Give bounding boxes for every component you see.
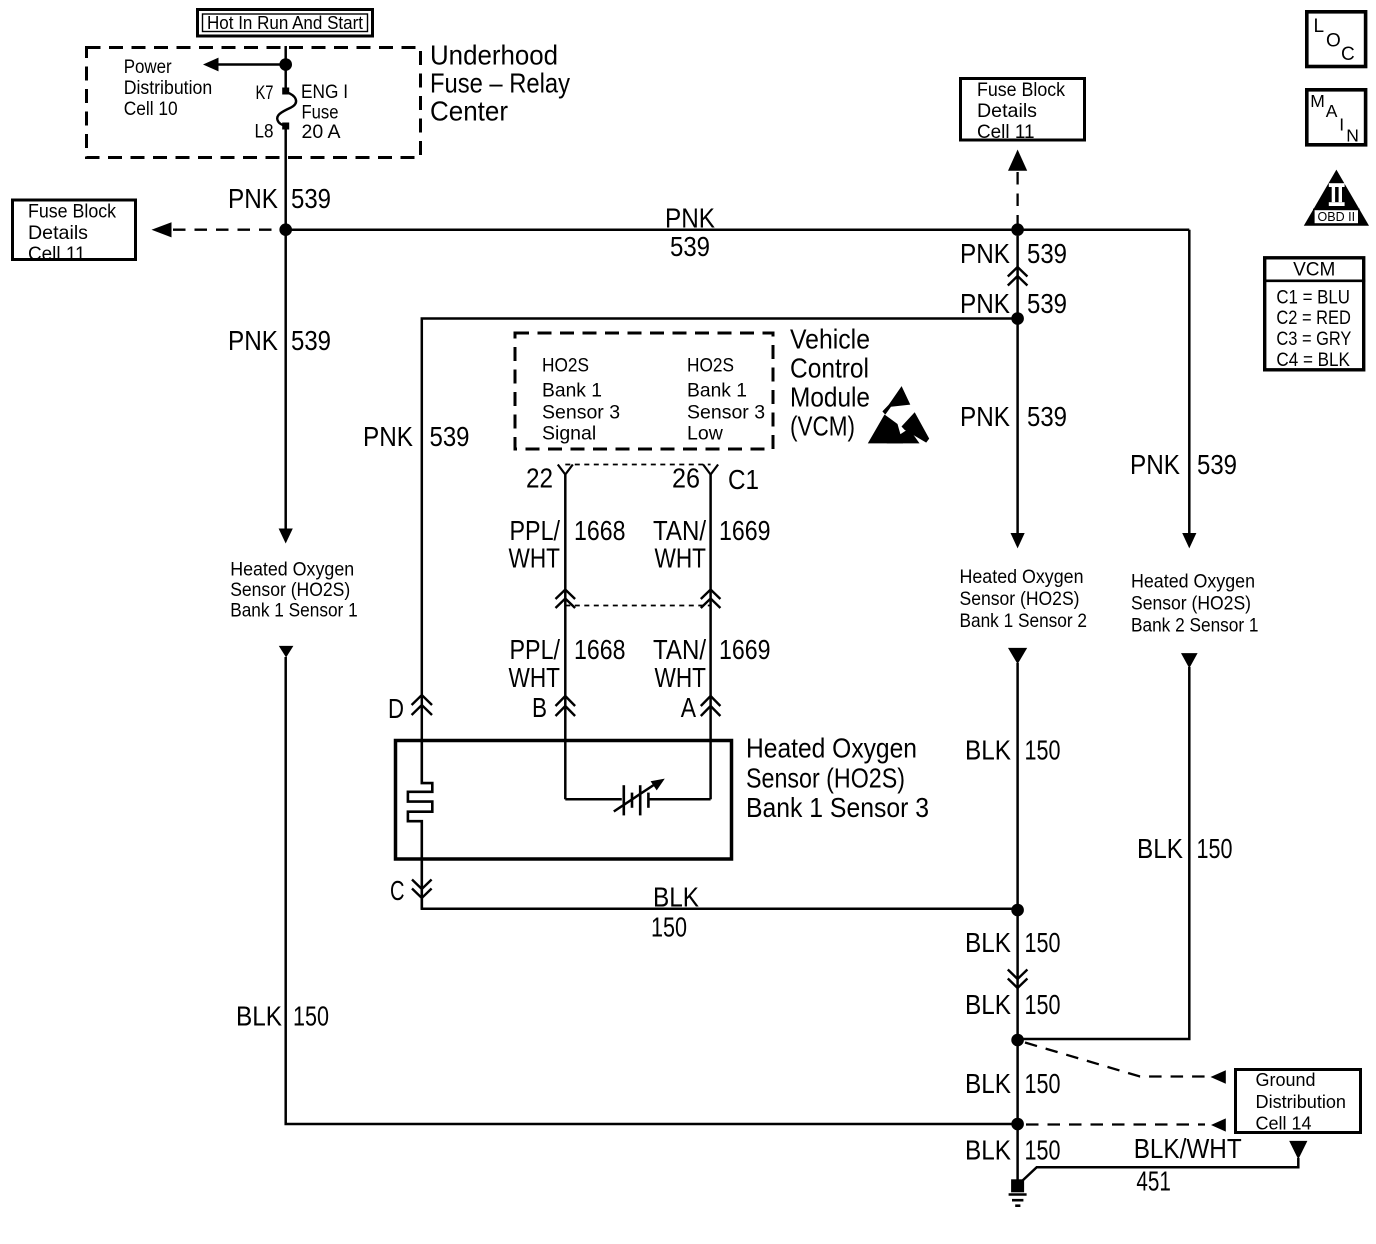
svg-text:A: A (681, 692, 697, 723)
svg-text:Sensor (HO2S): Sensor (HO2S) (230, 579, 350, 601)
svg-text:Control: Control (790, 353, 869, 384)
junction node: bus / middle branch (1011, 223, 1024, 236)
svg-text:Bank 1: Bank 1 (687, 379, 747, 401)
svg-text:Sensor 3: Sensor 3 (687, 402, 765, 424)
wire: PNK 539 middle vertical with down arrow (1011, 236, 1025, 548)
wire: hot feed from box into fuse center (284, 46, 287, 89)
svg-text:539: 539 (1197, 449, 1237, 480)
pin 22 fork (526, 463, 573, 494)
label box: Fuse Block Details Cell 11 (top) (961, 79, 1085, 144)
svg-text:Underhood: Underhood (430, 40, 558, 71)
svg-text:539: 539 (430, 421, 470, 452)
label box: Fuse Block Details Cell 11 (left) (13, 200, 136, 265)
label: PPL/WHT 1668 (upper) (509, 515, 626, 574)
svg-text:C1: C1 (728, 464, 759, 495)
svg-text:Details: Details (977, 100, 1037, 122)
svg-text:Module: Module (790, 382, 870, 413)
ground symbol G103 (1009, 1179, 1027, 1205)
svg-text:451: 451 (1136, 1165, 1171, 1196)
svg-text:Sensor (HO2S): Sensor (HO2S) (1131, 592, 1251, 614)
ESD sensitivity symbol (868, 386, 929, 443)
label: PPL/WHT 1668 (lower) (509, 634, 626, 693)
svg-text:ENG I: ENG I (301, 81, 348, 103)
label: BLK 150 (middle #3) (965, 989, 1061, 1020)
sensor cell element (inside HO2S box) (565, 740, 710, 816)
label: PNK 539 (middle #1) (960, 238, 1067, 269)
svg-text:BLK: BLK (965, 927, 1011, 958)
junction node: hot feed branch (279, 58, 292, 71)
svg-text:150: 150 (293, 1001, 329, 1032)
svg-text:OBD II: OBD II (1318, 210, 1356, 224)
svg-text:Heated Oxygen: Heated Oxygen (230, 559, 354, 581)
label box: Hot In Run And Start (198, 10, 373, 37)
text: HO2S Bank 1 Sensor 3 Signal (542, 354, 620, 444)
text: Power Distribution Cell 10 (124, 56, 213, 120)
LOC reference box (1307, 12, 1366, 67)
junction node: middle wire / inner bus (1011, 312, 1024, 325)
svg-text:BLK: BLK (653, 882, 699, 913)
svg-text:150: 150 (1025, 989, 1061, 1020)
svg-text:Distribution: Distribution (1256, 1092, 1347, 1112)
svg-text:L8: L8 (255, 121, 274, 143)
svg-text:26: 26 (672, 463, 700, 494)
svg-text:PNK: PNK (228, 325, 278, 356)
svg-text:Sensor (HO2S): Sensor (HO2S) (746, 763, 905, 794)
wire: BLK 150 right vertical joining middle (1018, 653, 1198, 1039)
svg-text:Sensor 3: Sensor 3 (542, 402, 620, 424)
label: BLK 150 (middle #5) (965, 1134, 1061, 1165)
svg-text:M: M (1310, 91, 1325, 111)
text: HO2S Bank 1 Sensor 3 Low (687, 354, 765, 444)
svg-text:Heated Oxygen: Heated Oxygen (746, 733, 917, 764)
svg-text:C: C (390, 875, 405, 906)
HO2S Bank 1 Sensor 3 box (396, 741, 732, 860)
svg-text:C: C (1341, 44, 1355, 65)
svg-text:D: D (388, 693, 404, 724)
svg-text:BLK: BLK (965, 1134, 1011, 1165)
wire: BLK 150 middle vertical to ground (1008, 648, 1027, 1185)
connector chevrons A (681, 692, 721, 723)
svg-text:WHT: WHT (509, 543, 561, 574)
svg-text:PPL/: PPL/ (510, 634, 561, 665)
svg-text:PPL/: PPL/ (510, 515, 561, 546)
dashed arrow to Fuse Block Details (left) (152, 222, 282, 237)
svg-text:B: B (532, 692, 547, 723)
svg-text:Bank 1 Sensor 2: Bank 1 Sensor 2 (960, 610, 1088, 632)
svg-text:150: 150 (1025, 1134, 1061, 1165)
svg-text:PNK: PNK (960, 288, 1010, 319)
svg-text:Bank 1 Sensor 3: Bank 1 Sensor 3 (746, 792, 929, 823)
svg-text:Heated Oxygen: Heated Oxygen (960, 566, 1084, 588)
VCM connector legend table (1263, 258, 1365, 371)
svg-text:PNK: PNK (363, 421, 413, 452)
wire: PPL/WHT 1668 pin 22 to sensor (564, 475, 567, 740)
svg-text:BLK: BLK (1137, 833, 1183, 864)
svg-text:BLK: BLK (965, 734, 1011, 765)
svg-text:Cell 14: Cell 14 (1256, 1113, 1312, 1133)
svg-text:Fuse – Relay: Fuse – Relay (430, 68, 570, 99)
svg-text:1669: 1669 (719, 634, 771, 665)
heater element (inside HO2S box) (408, 740, 432, 910)
svg-text:22: 22 (526, 463, 553, 494)
connector chevrons B (532, 692, 575, 723)
svg-text:C3 = GRY: C3 = GRY (1276, 329, 1351, 350)
MAIN reference box (1307, 90, 1366, 146)
svg-text:PNK: PNK (228, 183, 278, 214)
svg-text:PNK: PNK (960, 238, 1010, 269)
svg-text:Fuse: Fuse (302, 101, 339, 123)
svg-text:I: I (1339, 115, 1344, 135)
svg-text:Sensor (HO2S): Sensor (HO2S) (960, 588, 1080, 610)
OBD II symbol (1304, 170, 1369, 226)
pin 26 fork (672, 463, 759, 496)
svg-text:C4 = BLK: C4 = BLK (1276, 350, 1350, 371)
svg-text:Power: Power (124, 56, 172, 78)
svg-text:Bank 1: Bank 1 (542, 379, 602, 401)
label: BLK 150 (horizontal) (651, 882, 699, 943)
junction node: C return / middle wire (1011, 904, 1024, 917)
wire: PNK 539 main horizontal bus (286, 228, 1190, 231)
connector C1 dashed line (565, 464, 710, 466)
svg-text:Cell 11: Cell 11 (977, 121, 1035, 143)
connector chevrons C (390, 875, 432, 906)
svg-text:Bank 1 Sensor 1: Bank 1 Sensor 1 (230, 599, 358, 621)
label: PNK 539 (left second) (228, 325, 331, 356)
label: PNK 539 (middle #3) (960, 401, 1067, 432)
wire: BLK/WHT 451 (1021, 1133, 1307, 1196)
svg-text:150: 150 (1197, 833, 1233, 864)
svg-text:PNK: PNK (1130, 449, 1180, 480)
svg-text:539: 539 (670, 231, 710, 262)
svg-text:N: N (1346, 126, 1359, 146)
inline connector dashed line (565, 605, 710, 607)
inline connector chevrons pin22 wire (556, 590, 576, 609)
label: PNK 539 (right branch) (1130, 449, 1237, 480)
svg-text:Bank 2 Sensor 1: Bank 2 Sensor 1 (1131, 614, 1259, 636)
svg-text:VCM: VCM (1293, 260, 1335, 281)
svg-text:TAN/: TAN/ (653, 515, 706, 546)
svg-text:BLK: BLK (965, 989, 1011, 1020)
text: Heated Oxygen Sensor (HO2S) Bank 1 Sensor 2 (960, 566, 1088, 632)
svg-text:1668: 1668 (574, 634, 626, 665)
inline connector chevrons (BLK wire) (1008, 970, 1028, 989)
svg-text:Heated Oxygen: Heated Oxygen (1131, 570, 1255, 592)
connector chevrons D (388, 693, 432, 724)
junction node: right wire / middle wire (1011, 1034, 1024, 1047)
svg-text:HO2S: HO2S (542, 354, 589, 376)
Underhood Fuse-Relay Center dashed box (87, 48, 421, 158)
wire: inner PNK branch to HO2S heater (D) (422, 319, 1018, 740)
text: Underhood Fuse - Relay Center (430, 40, 570, 127)
wire: PNK 539 left vertical with down arrow (279, 130, 293, 544)
wire: BLK 150 left long vertical (279, 646, 1018, 1124)
svg-text:20 A: 20 A (302, 121, 341, 143)
label: BLK 150 (middle #1) (965, 734, 1061, 765)
svg-text:WHT: WHT (655, 543, 707, 574)
svg-text:Hot In Run And Start: Hot In Run And Start (207, 12, 363, 33)
text: Heated Oxygen Sensor (HO2S) Bank 1 Sensor 3 (746, 733, 929, 823)
svg-text:TAN/: TAN/ (653, 634, 706, 665)
svg-text:HO2S: HO2S (687, 354, 734, 376)
svg-text:WHT: WHT (655, 662, 707, 693)
junction node: left wire / main bus (279, 223, 292, 236)
svg-text:PNK: PNK (665, 203, 715, 234)
text: Heated Oxygen Sensor (HO2S) Bank 1 Sensor 1 (230, 559, 358, 622)
svg-text:539: 539 (291, 325, 331, 356)
label: BLK 150 (middle #2) (965, 927, 1061, 958)
text: Heated Oxygen Sensor (HO2S) Bank 2 Sensor 1 (1131, 570, 1259, 636)
svg-text:539: 539 (1027, 401, 1067, 432)
VCM dashed box (515, 333, 773, 449)
svg-text:Fuse Block: Fuse Block (977, 79, 1065, 101)
dashed arrow up to Fuse Block Details (top) (1008, 150, 1027, 226)
svg-text:1669: 1669 (719, 515, 771, 546)
svg-text:539: 539 (291, 183, 331, 214)
svg-text:Vehicle: Vehicle (790, 324, 870, 355)
label: PNK 539 on bus (665, 203, 715, 262)
svg-text:Ground: Ground (1256, 1070, 1316, 1090)
svg-text:539: 539 (1027, 238, 1067, 269)
label: PNK 539 (left upper) (228, 183, 331, 214)
svg-text:1668: 1668 (574, 515, 626, 546)
svg-text:150: 150 (1025, 734, 1061, 765)
svg-text:PNK: PNK (960, 401, 1010, 432)
svg-text:(VCM): (VCM) (790, 411, 855, 442)
svg-text:WHT: WHT (509, 662, 561, 693)
svg-text:Details: Details (28, 222, 88, 244)
wire: BLK 150 from C to middle wire (422, 898, 1018, 909)
svg-text:C2 = RED: C2 = RED (1276, 308, 1351, 329)
label: TAN/WHT 1669 (lower) (653, 634, 771, 693)
label: TAN/WHT 1669 (upper) (653, 515, 771, 574)
svg-text:A: A (1326, 101, 1338, 121)
svg-text:C1 = BLU: C1 = BLU (1276, 287, 1350, 308)
svg-text:Cell 10: Cell 10 (124, 98, 178, 120)
svg-text:Fuse Block: Fuse Block (28, 200, 116, 222)
svg-text:BLK/WHT: BLK/WHT (1134, 1133, 1242, 1164)
label: BLK 150 (left) (236, 1001, 329, 1032)
svg-text:150: 150 (651, 912, 687, 943)
wire: TAN/WHT 1669 pin 26 to sensor (709, 475, 712, 740)
junction node: left return / middle wire (1011, 1118, 1024, 1131)
wire: branch arrow to Power Distribution (203, 58, 286, 72)
svg-text:BLK: BLK (236, 1001, 282, 1032)
label box: Ground Distribution Cell 14 (1236, 1070, 1361, 1134)
text: Vehicle Control Module (VCM) (790, 324, 870, 442)
svg-text:150: 150 (1025, 927, 1061, 958)
inline connector chevrons (PNK wire) (1008, 267, 1028, 286)
svg-text:539: 539 (1027, 288, 1067, 319)
fuse: ENG I Fuse 20 A (K7/L8) (255, 81, 349, 143)
svg-text:Distribution: Distribution (124, 77, 213, 99)
svg-text:Cell 11: Cell 11 (28, 243, 86, 265)
dashed reference to Ground Distribution (lower) (1026, 1118, 1226, 1131)
label: PNK 539 (inner branch) (363, 421, 470, 452)
dashed reference to Ground Distribution (upper) (1025, 1043, 1226, 1084)
svg-text:150: 150 (1025, 1068, 1061, 1099)
inline connector chevrons pin26 wire (701, 590, 721, 609)
label: PNK 539 (middle #2) (960, 288, 1067, 319)
svg-text:Signal: Signal (542, 423, 596, 445)
label: BLK 150 (middle #4) (965, 1068, 1061, 1099)
label: BLK 150 (right) (1137, 833, 1233, 864)
svg-text:O: O (1326, 31, 1341, 52)
wire: PNK 539 right branch down with arrow (1182, 230, 1196, 549)
svg-text:K7: K7 (256, 82, 274, 104)
svg-text:BLK: BLK (965, 1068, 1011, 1099)
svg-text:Low: Low (687, 423, 724, 445)
svg-text:Center: Center (430, 96, 508, 127)
svg-text:L: L (1314, 16, 1325, 37)
